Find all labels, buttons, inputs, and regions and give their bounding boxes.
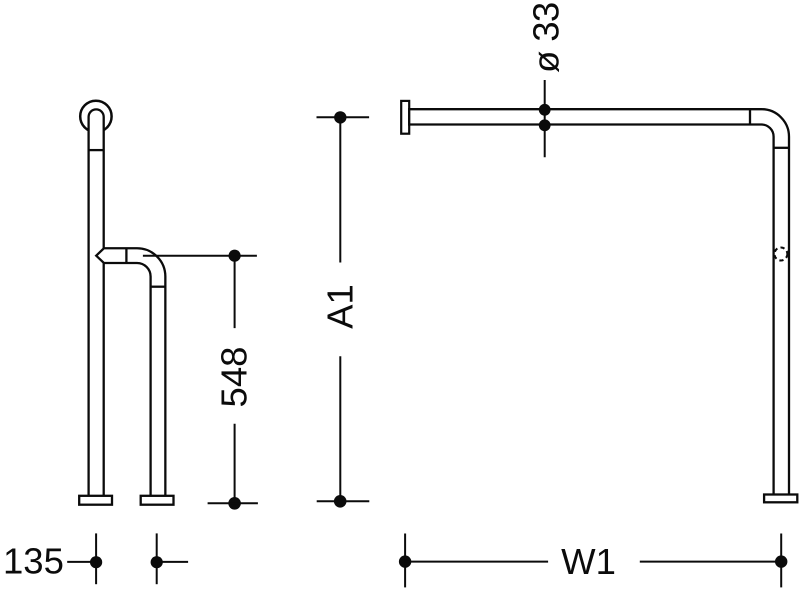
right view: horizontal rail + elbow + vertical post — [409, 109, 789, 495]
dimension A1: top extension line — [317, 116, 370, 118]
dimension A1: bottom dot — [334, 495, 347, 508]
dimension diameter 33: dot on bottom rail line — [539, 119, 551, 131]
left view: weld joint line on tube 1 — [89, 149, 104, 151]
left view: weld joint on horizontal stub — [125, 248, 127, 263]
dimension 135: dot under tube 1 — [90, 556, 102, 568]
right view: floor flange of post — [764, 495, 797, 503]
dimension 135: tick through tube 1 centre — [95, 533, 97, 584]
right view: wall flange plate — [401, 101, 409, 134]
dimension W1: left dimension line — [405, 561, 548, 563]
dimension 548: bottom extension line — [208, 502, 258, 504]
right view: weld joint on vertical post — [774, 147, 789, 149]
right view: dashed mounting hole on post — [774, 248, 787, 261]
dimension 548: top extension line — [143, 255, 257, 257]
dimension A1: vertical line lower segment — [339, 356, 341, 501]
dimension W1: tick through right dot — [780, 534, 782, 588]
dimension 548: vertical line upper segment — [234, 256, 236, 328]
svg-text:A1: A1 — [320, 284, 361, 329]
svg-text:ø 33: ø 33 — [526, 2, 567, 73]
left view: floor flange of tube 2 — [141, 496, 174, 505]
dimension A1: vertical line upper segment — [339, 117, 341, 262]
dimension A1: bottom extension line — [317, 500, 370, 502]
dimension A1: top dot — [334, 111, 346, 123]
dimension W1: right dot at post — [775, 555, 787, 567]
dimension 548: bottom dot — [228, 497, 241, 510]
svg-text:135: 135 — [3, 541, 64, 582]
dimension W1: left dot at wall flange — [399, 555, 411, 567]
dimension diameter 33: dot on top rail line — [539, 104, 551, 116]
dimension W1: right dimension line — [640, 561, 781, 563]
left view: weld joint on tube 2 — [151, 286, 166, 288]
right view: weld joint on horizontal rail — [749, 109, 751, 124]
dimension 548: top dot — [229, 250, 241, 262]
svg-text:W1: W1 — [561, 541, 616, 582]
dimension W1: tick through left dot — [404, 534, 406, 588]
dimension 135: dot under tube 2 — [151, 556, 163, 568]
dimension 135: leader line right — [157, 561, 188, 563]
left view: horizontal stub + elbow + vertical tube 2 — [96, 248, 165, 496]
left view: wall flange disc — [80, 101, 111, 132]
dimension 548: vertical line lower segment — [234, 424, 236, 504]
left view: vertical tube 1 with rounded top — [89, 109, 104, 496]
left view: floor flange of tube 1 — [79, 496, 112, 505]
dimension 135: leader line left — [67, 561, 96, 563]
dimension 135: tick through tube 2 centre — [156, 533, 158, 584]
dimension diameter 33: centre line — [544, 80, 546, 157]
svg-text:548: 548 — [214, 347, 255, 408]
